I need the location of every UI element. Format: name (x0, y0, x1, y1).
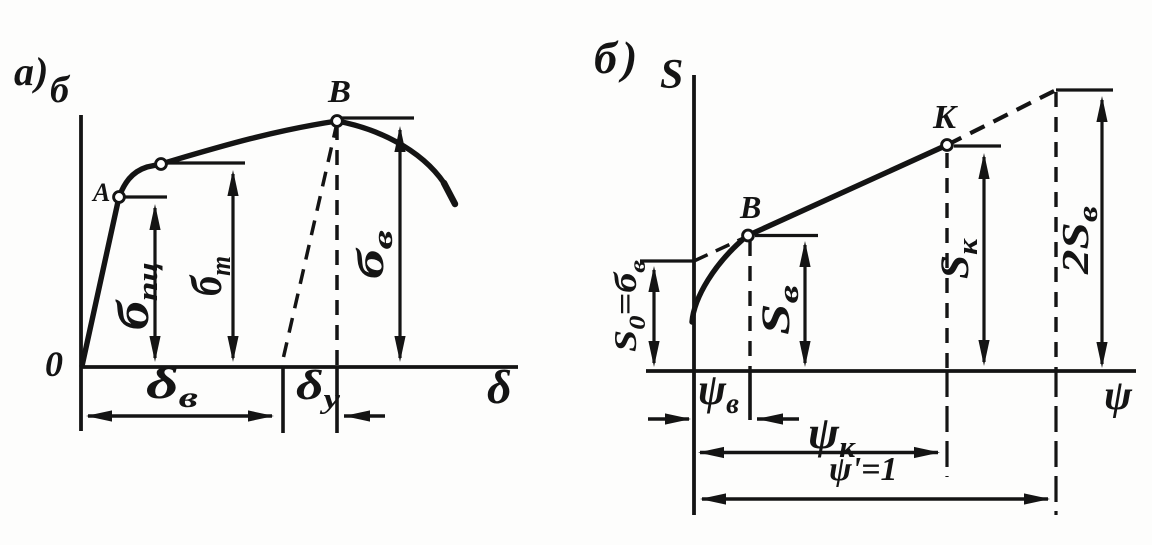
svg-text:б): б) (594, 32, 642, 83)
svg-text:B: B (327, 73, 351, 109)
svg-text:0: 0 (45, 344, 63, 384)
svg-text:K: K (932, 99, 958, 136)
svg-text:S: S (660, 52, 683, 98)
svg-text:δ: δ (487, 361, 512, 414)
svg-text:б: б (50, 69, 71, 111)
svg-text:A: A (91, 178, 110, 207)
svg-text:ψ: ψ (1104, 373, 1133, 419)
svg-text:ψ'=1: ψ'=1 (829, 451, 898, 488)
svg-text:a): a) (14, 49, 49, 94)
svg-text:B: B (739, 189, 761, 225)
